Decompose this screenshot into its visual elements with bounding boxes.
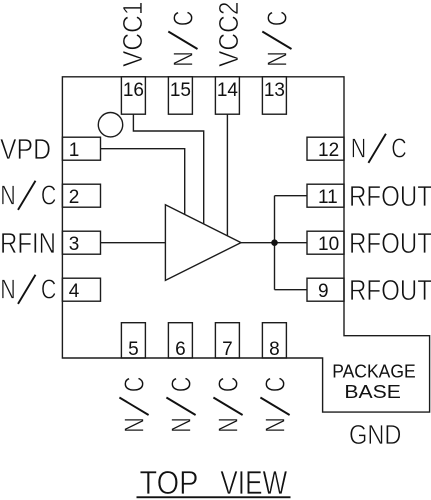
svg-text:N: N <box>118 417 149 433</box>
svg-text:7: 7 <box>222 339 233 360</box>
svg-text:N: N <box>0 180 16 211</box>
svg-text:N: N <box>165 417 196 433</box>
svg-text:1: 1 <box>69 140 80 161</box>
svg-text:C: C <box>41 180 57 211</box>
svg-text:RFOUT: RFOUT <box>349 275 431 307</box>
svg-text:11: 11 <box>318 187 338 208</box>
svg-text:C: C <box>391 133 407 164</box>
svg-text:C: C <box>212 377 243 393</box>
svg-text:10: 10 <box>318 234 339 255</box>
svg-text:VPD: VPD <box>0 134 51 166</box>
svg-text:16: 16 <box>123 80 144 101</box>
svg-text:C: C <box>165 377 196 393</box>
svg-text:2: 2 <box>69 187 80 208</box>
svg-text:PACKAGE: PACKAGE <box>332 362 416 382</box>
svg-text:6: 6 <box>175 339 186 360</box>
svg-text:3: 3 <box>69 234 80 255</box>
svg-text:RFOUT: RFOUT <box>349 181 431 213</box>
svg-text:N: N <box>212 417 243 433</box>
svg-text:BASE: BASE <box>344 382 401 402</box>
svg-text:5: 5 <box>128 339 139 360</box>
svg-text:15: 15 <box>170 80 191 101</box>
svg-text:C: C <box>41 274 57 305</box>
svg-text:N: N <box>351 133 367 164</box>
svg-text:12: 12 <box>318 140 339 161</box>
svg-text:RFOUT: RFOUT <box>349 228 431 260</box>
svg-text:RFIN: RFIN <box>0 228 56 260</box>
svg-text:N: N <box>261 51 292 66</box>
svg-text:N: N <box>259 417 290 433</box>
svg-text:C: C <box>167 11 198 27</box>
svg-text:VIEW: VIEW <box>220 464 288 500</box>
svg-text:9: 9 <box>318 281 329 302</box>
svg-text:GND: GND <box>349 419 402 450</box>
svg-text:13: 13 <box>264 80 285 101</box>
svg-text:VCC1: VCC1 <box>117 2 148 68</box>
svg-text:14: 14 <box>217 80 239 101</box>
svg-text:TOP: TOP <box>140 464 199 500</box>
svg-text:4: 4 <box>69 281 80 302</box>
svg-text:C: C <box>261 11 292 27</box>
svg-text:VCC2: VCC2 <box>213 2 244 68</box>
svg-text:C: C <box>259 377 290 393</box>
svg-text:8: 8 <box>269 339 280 360</box>
svg-text:C: C <box>118 377 149 393</box>
svg-text:N: N <box>0 274 16 305</box>
svg-text:N: N <box>167 51 198 66</box>
